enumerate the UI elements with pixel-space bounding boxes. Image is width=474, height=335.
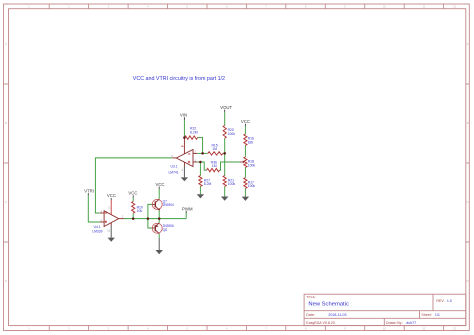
svg-text:2: 2 <box>68 5 70 9</box>
svg-text:B: B <box>5 121 7 125</box>
svg-text:1M: 1M <box>212 147 217 151</box>
svg-text:100k: 100k <box>248 184 256 188</box>
comparator U4.1 plus input marker <box>105 221 107 223</box>
wire Q8 collector to ground <box>158 234 160 238</box>
svg-text:2: 2 <box>122 215 124 218</box>
wire VTRI to U4.1 plus input <box>88 196 100 222</box>
svg-text:2018-11-03: 2018-11-03 <box>328 313 346 317</box>
svg-text:REV.: REV. <box>436 299 444 303</box>
comparator U4.1 pin numbers <box>101 207 124 233</box>
svg-text:LM339: LM339 <box>92 229 102 233</box>
svg-text:VCC: VCC <box>107 193 116 198</box>
svg-text:1: 1 <box>28 5 30 9</box>
sheet border row ticks left and right <box>4 84 470 242</box>
wire PWM riser <box>185 213 187 219</box>
op-amp U3.1 minus input marker <box>188 153 190 155</box>
svg-text:82k: 82k <box>248 141 254 145</box>
svg-text:3: 3 <box>108 5 110 9</box>
transistor Q7 2N3904 <box>152 199 162 209</box>
svg-text:A: A <box>5 42 7 46</box>
svg-text:2: 2 <box>68 326 70 330</box>
wire VIN vertical to R22 junction <box>183 120 185 137</box>
ground below U3.1 <box>183 167 185 178</box>
wire R22 right to inverting input column <box>198 138 203 154</box>
svg-text:1.0: 1.0 <box>447 299 452 303</box>
resistor R36 1M <box>207 168 220 171</box>
svg-text:4: 4 <box>147 5 149 9</box>
transistor Q8 2N3906 <box>152 223 162 233</box>
svg-text:LM741: LM741 <box>168 171 178 175</box>
junction VIN R22 node <box>183 136 186 139</box>
svg-text:D: D <box>5 279 8 283</box>
svg-text:VOUT: VOUT <box>220 105 232 110</box>
wire R18 to R17 <box>244 168 246 178</box>
op-amp U3.1 pin 3 stub <box>193 161 197 163</box>
svg-text:EasyEDA V5.8.20: EasyEDA V5.8.20 <box>306 321 335 325</box>
svg-text:10k: 10k <box>137 209 143 213</box>
wire R19 to output bus <box>132 213 134 218</box>
svg-text:8: 8 <box>305 326 307 330</box>
svg-text:VCC: VCC <box>155 182 164 187</box>
wire op-amp pin2 to R15 <box>197 152 208 154</box>
resistor R22 8.2M <box>185 136 198 139</box>
sheet border column ticks bottom <box>49 326 443 331</box>
svg-text:12: 12 <box>453 5 457 9</box>
svg-text:5: 5 <box>186 326 188 330</box>
svg-text:VCC and VTRI circuitry is from: VCC and VTRI circuitry is from part 1/2 <box>133 76 225 82</box>
svg-text:C: C <box>5 200 8 204</box>
svg-text:9: 9 <box>344 326 346 330</box>
svg-text:B: B <box>467 121 469 125</box>
potentiometer R18 100k <box>244 157 247 168</box>
op-amp U3.1 plus input marker <box>188 161 190 163</box>
junction base column output bus <box>147 217 150 220</box>
resistor R17 100k <box>244 178 247 189</box>
svg-text:8.2M: 8.2M <box>190 130 198 134</box>
wire R36 right riser to wiper line <box>220 162 240 170</box>
svg-text:100k: 100k <box>228 132 236 136</box>
svg-text:4: 4 <box>182 169 184 172</box>
sheet border row letters <box>5 42 470 283</box>
svg-text:New Schematic: New Schematic <box>308 302 349 308</box>
wire Q7 emitter to output node <box>158 210 160 218</box>
wire R21 to ground <box>224 186 226 196</box>
svg-text:11: 11 <box>422 326 425 330</box>
wire pin3 node down to R27 <box>199 162 201 176</box>
junction emitter output bus <box>158 217 161 220</box>
svg-text:10: 10 <box>383 5 387 9</box>
svg-text:3: 3 <box>108 207 110 210</box>
wire U4.1 output bus to PWM <box>124 218 186 220</box>
svg-text:PWM: PWM <box>182 206 193 211</box>
svg-text:1M: 1M <box>212 164 217 168</box>
comparator U4.1 LM339 triangle <box>104 211 119 227</box>
svg-text:VCC: VCC <box>128 191 137 196</box>
junction R19 output bus <box>132 217 135 220</box>
wire R15 to VOUT column <box>223 152 225 154</box>
svg-text:7: 7 <box>265 5 267 9</box>
wire pin3 node loop down to R36 <box>200 162 206 170</box>
svg-text:1/1: 1/1 <box>435 313 440 317</box>
svg-text:VIN: VIN <box>180 112 187 117</box>
svg-text:A: A <box>467 42 469 46</box>
svg-text:2N3904: 2N3904 <box>163 203 174 207</box>
svg-text:1: 1 <box>28 326 30 330</box>
wire transistor base column <box>148 204 153 228</box>
svg-text:3: 3 <box>108 326 110 330</box>
svg-text:Date:: Date: <box>306 313 315 317</box>
junction pin2 VOUT node <box>223 152 226 155</box>
svg-text:12: 12 <box>453 326 457 330</box>
svg-text:4: 4 <box>147 326 149 330</box>
wire R16 to R18 <box>244 145 246 157</box>
wire R17 to ground <box>244 188 246 196</box>
ground below R27 <box>199 193 201 195</box>
ground below R17 <box>244 196 246 198</box>
op-amp U3.1 V+ pin to ground <box>183 162 185 166</box>
resistor R27 8.2M <box>199 176 202 187</box>
svg-text:TITLE:: TITLE: <box>306 295 315 299</box>
wire U3.1 output feedback to U4.1 input <box>95 158 172 213</box>
wire Q8 emitter to output node <box>158 219 160 223</box>
svg-text:11: 11 <box>422 5 425 9</box>
ground below R21 <box>224 196 226 198</box>
ground below Q8 <box>158 238 160 250</box>
svg-text:12: 12 <box>107 229 110 232</box>
op-amp U3.1 output pin stub <box>172 157 176 159</box>
svg-text:5: 5 <box>186 5 188 9</box>
svg-text:8: 8 <box>305 5 307 9</box>
svg-text:10: 10 <box>383 326 387 330</box>
svg-text:100k: 100k <box>248 164 256 168</box>
resistor R15 1M <box>208 152 223 155</box>
resistor R19 10k <box>132 201 135 213</box>
resistor R20 100k <box>223 125 226 138</box>
wire op-amp pin3 to node <box>197 161 200 163</box>
resistor R16 82k <box>244 134 247 145</box>
wire VCC to R19 <box>132 198 134 202</box>
comparator U4.1 pin stubs <box>100 212 104 214</box>
wire R20 to pin2 node <box>224 138 226 153</box>
svg-text:U3.1: U3.1 <box>171 165 178 169</box>
op-amp U3.1 pin 2 stub <box>193 152 197 154</box>
svg-text:6: 6 <box>226 326 228 330</box>
title block outline <box>304 294 466 325</box>
op-amp U3.1 LM741 triangle <box>176 150 193 167</box>
svg-text:VCC: VCC <box>241 119 250 124</box>
svg-text:Sheet:: Sheet: <box>421 313 431 317</box>
svg-text:8.2M: 8.2M <box>204 182 212 186</box>
wire R27 to ground <box>199 186 201 194</box>
resistor R21 100k <box>223 176 226 187</box>
svg-text:100k: 100k <box>228 182 236 186</box>
svg-text:VTRI: VTRI <box>84 189 94 194</box>
comparator U4.1 minus input marker <box>105 212 107 214</box>
svg-text:Drawn By:: Drawn By: <box>386 321 403 325</box>
comparator U4.1 ground pin <box>110 223 112 226</box>
junction pin2 R22 node <box>201 152 204 155</box>
comparator U4.1 V+ supply pin from VCC <box>110 200 112 215</box>
wire VCC to R16 <box>244 126 246 134</box>
wire VOUT down to R20 <box>224 112 226 125</box>
op-amp U3.1 pin numbers <box>172 151 197 172</box>
ground below U4.1 <box>110 226 112 238</box>
sheet border column ticks top <box>49 4 443 9</box>
svg-text:dch77: dch77 <box>406 321 416 325</box>
op-amp U3.1 V- supply pin from VIN node <box>183 138 185 154</box>
op-amp U3.1 supply dash marker <box>181 145 183 147</box>
junction pin3 node <box>199 161 202 164</box>
svg-text:7: 7 <box>265 326 267 330</box>
svg-text:9: 9 <box>344 5 346 9</box>
svg-text:6: 6 <box>226 5 228 9</box>
svg-text:Q8: Q8 <box>163 228 167 232</box>
wire pin2 node down to R21 <box>224 153 226 175</box>
wire Q7 collector to VCC <box>158 189 160 199</box>
